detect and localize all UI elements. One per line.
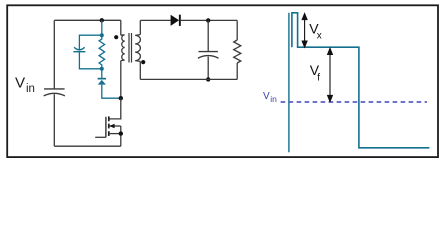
wire snubber top (teal) (101, 20, 103, 35)
svg-text:in: in (26, 83, 35, 95)
svg-text:V: V (15, 75, 26, 92)
wire Cout branch upper (207, 20, 209, 51)
MOSFET Q1 body stub with arrow (110, 125, 121, 127)
svg-text:V: V (263, 91, 270, 102)
MOSFET Q1 drain lead (109, 98, 121, 119)
diode D1 output rectifier (171, 15, 181, 26)
arrow Vx measure (302, 14, 307, 47)
node teal junction bottom (100, 67, 104, 71)
diode D snubber clamp (teal) (98, 78, 106, 85)
arrow Vf measure (328, 48, 333, 101)
node junction source/body (119, 131, 123, 135)
capacitor C snubber (73, 47, 85, 51)
capacitor Cout output (198, 52, 219, 59)
MOSFET Q1 gate plate (105, 117, 107, 138)
transformer T1 secondary winding (135, 20, 140, 79)
MOSFET Q1 source lead (120, 126, 122, 146)
svg-text:f: f (317, 73, 320, 84)
resistor R snubber zigzag (99, 35, 105, 69)
wire snubber cap branch lower (79, 52, 101, 69)
wire secondary top rail left (140, 19, 170, 21)
node dot primary polarity (114, 35, 118, 39)
resistor Rload zigzag (234, 40, 241, 63)
wire snubber to diode (101, 69, 103, 79)
transformer T1 primary winding (121, 20, 125, 98)
MOSFET Q1 channel segments (108, 116, 110, 136)
wire left input (53, 20, 55, 89)
node junction top of Cout (206, 18, 210, 22)
transformer T1 core (129, 33, 132, 63)
wire secondary bottom rail (140, 78, 237, 80)
node junction snubber to top rail (100, 18, 104, 22)
wire secondary top rail right (181, 19, 237, 21)
MOSFET Q1 source stub (109, 133, 121, 135)
wire snubber cap branch upper (79, 35, 101, 49)
waveform axis (teal) (288, 13, 290, 153)
capacitor Cin input bulk (44, 89, 65, 96)
node junction drain / snubber (119, 96, 123, 100)
svg-text:x: x (317, 31, 322, 42)
wire left lower (53, 94, 55, 146)
svg-text:in: in (270, 94, 277, 104)
wire bottom rail primary (54, 145, 121, 147)
node dot secondary polarity (141, 60, 145, 64)
resistor Rload lower lead (236, 63, 238, 79)
dashed line Vin level (blue) (281, 101, 427, 103)
wire Cout branch lower (207, 57, 209, 80)
node teal junction top (100, 33, 104, 37)
wire top rail primary (54, 19, 121, 21)
wire snubber diode to drain node (102, 85, 121, 99)
node junction bottom of Cout (206, 77, 210, 81)
waveform trace drain voltage (292, 13, 430, 148)
MOSFET Q1 gate lead (95, 136, 106, 138)
resistor Rload upper lead (236, 20, 238, 40)
